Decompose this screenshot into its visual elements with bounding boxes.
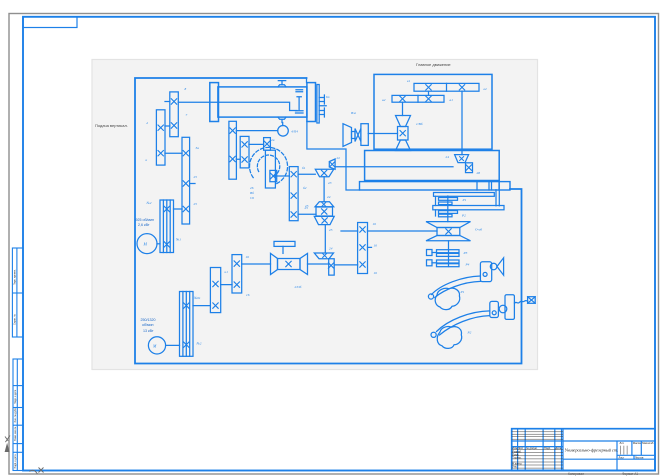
svg-text:Подп. и дата: Подп. и дата xyxy=(14,454,17,469)
svg-text:2а: 2а xyxy=(271,138,275,142)
svg-text:Главное движение: Главное движение xyxy=(416,62,451,67)
svg-text:Справ. №: Справ. № xyxy=(14,314,17,325)
svg-text:16: 16 xyxy=(373,222,377,226)
svg-text:28: 28 xyxy=(477,171,481,175)
svg-text:Р3: Р3 xyxy=(463,251,468,255)
svg-text:а2: а2 xyxy=(382,98,386,102)
svg-text:Вэл: Вэл xyxy=(351,111,356,115)
svg-text:925 об/мин: 925 об/мин xyxy=(136,218,155,222)
svg-text:Перв. примен.: Перв. примен. xyxy=(14,269,17,285)
svg-text:Р1: Р1 xyxy=(462,198,467,202)
svg-text:Р2: Р2 xyxy=(461,214,466,218)
svg-text:№61: №61 xyxy=(193,296,201,300)
svg-text:Лит.: Лит. xyxy=(620,441,625,445)
svg-text:Листов: Листов xyxy=(635,455,644,459)
svg-text:16: 16 xyxy=(246,293,250,297)
svg-text:Утв.: Утв. xyxy=(512,465,517,469)
svg-text:24: 24 xyxy=(446,155,450,159)
svg-text:1/Вб: 1/Вб xyxy=(416,122,423,126)
svg-text:Лист: Лист xyxy=(619,455,625,459)
svg-text:16: 16 xyxy=(374,271,378,275)
svg-text:13 кВт: 13 кВт xyxy=(143,329,154,333)
svg-text:4/П4: 4/П4 xyxy=(291,130,298,134)
svg-text:Подп. и дата: Подп. и дата xyxy=(14,389,17,404)
svg-text:3а: 3а xyxy=(196,146,200,150)
svg-text:М: М xyxy=(143,242,148,247)
svg-text:Формат А1: Формат А1 xyxy=(622,472,638,476)
svg-text:2,6 кВт: 2,6 кВт xyxy=(138,223,150,227)
svg-text:25: 25 xyxy=(194,202,198,206)
svg-text:б2: б2 xyxy=(303,186,307,190)
svg-text:Масштаб: Масштаб xyxy=(642,441,654,445)
svg-text:а1: а1 xyxy=(450,98,454,102)
svg-text:М: М xyxy=(152,344,157,349)
svg-text:25: 25 xyxy=(305,204,309,208)
svg-text:Дата: Дата xyxy=(555,446,561,450)
svg-text:24: 24 xyxy=(329,247,333,251)
svg-text:Подп.: Подп. xyxy=(544,446,551,450)
svg-text:Масса: Масса xyxy=(633,441,641,445)
svg-text:16: 16 xyxy=(246,255,250,259)
svg-text:22: 22 xyxy=(337,156,341,160)
svg-text:и1: и1 xyxy=(225,270,229,274)
svg-text:б1: б1 xyxy=(302,166,306,170)
svg-text:250/1320: 250/1320 xyxy=(141,318,156,322)
svg-text:Вб: Вб xyxy=(250,191,254,195)
svg-text:25: 25 xyxy=(329,228,333,232)
svg-text:Инв. № дубл.: Инв. № дубл. xyxy=(14,407,17,422)
svg-text:С6: С6 xyxy=(250,196,254,200)
svg-text:№2: №2 xyxy=(196,342,202,346)
svg-text:Подача вертикал.: Подача вертикал. xyxy=(95,123,128,128)
svg-text:2/Об: 2/Об xyxy=(295,285,302,289)
svg-text:Копировал: Копировал xyxy=(568,472,584,476)
svg-text:№1: №1 xyxy=(175,238,181,242)
svg-text:О-об: О-об xyxy=(475,228,482,232)
svg-text:Р1: Р1 xyxy=(460,290,465,294)
svg-text:Р2: Р2 xyxy=(467,331,472,335)
svg-text:Р4: Р4 xyxy=(465,263,470,267)
svg-text:25: 25 xyxy=(194,175,198,179)
svg-text:26: 26 xyxy=(250,186,254,190)
svg-text:7: 7 xyxy=(186,113,188,117)
svg-text:16: 16 xyxy=(374,244,378,248)
svg-text:об/мин: об/мин xyxy=(142,323,154,327)
svg-text:Универсально-фрезерный ст.: Универсально-фрезерный ст. xyxy=(565,448,619,453)
svg-text:6п: 6п xyxy=(326,95,330,99)
svg-text:Взам. инв.№: Взам. инв.№ xyxy=(14,426,17,441)
svg-text:24: 24 xyxy=(327,195,331,199)
svg-text:№ докум.: № докум. xyxy=(526,447,538,450)
svg-text:8: 8 xyxy=(185,87,187,91)
svg-text:23: 23 xyxy=(328,181,332,185)
svg-text:4: 4 xyxy=(146,121,148,125)
svg-text:Т.контр.: Т.контр. xyxy=(512,456,522,460)
svg-text:№2: №2 xyxy=(146,201,152,205)
svg-text:в2: в2 xyxy=(484,87,487,91)
svg-text:в1: в1 xyxy=(407,79,410,83)
